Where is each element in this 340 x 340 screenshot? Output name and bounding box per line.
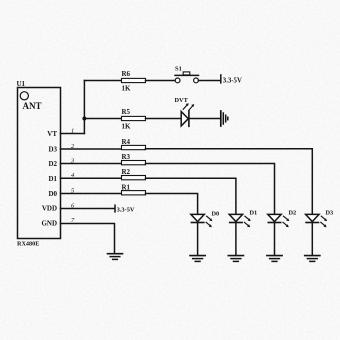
resistor R3	[122, 161, 146, 165]
power flag 3.3-5V (VDD)	[115, 205, 135, 213]
wire: R2 to LED D1 column	[146, 178, 236, 214]
svg-text:VDD: VDD	[42, 205, 57, 213]
wire: R4 to LED D3 column	[146, 149, 313, 215]
wire: R5 to LED DVT anode	[146, 118, 182, 120]
resistor R2	[122, 176, 146, 180]
svg-text:D3: D3	[48, 146, 57, 154]
resistor R5	[122, 116, 146, 120]
svg-text:R4: R4	[122, 138, 131, 146]
resistor R6	[122, 78, 146, 82]
wire: DVT cathode to ground	[190, 118, 220, 120]
IC U1 body (RX480E receiver)	[18, 88, 61, 239]
svg-text:3.3-5V: 3.3-5V	[117, 206, 135, 213]
svg-text:GND: GND	[41, 220, 57, 228]
wire: pin6 VDD to power flag	[61, 208, 115, 210]
wire: pin7 GND right and down to ground	[61, 224, 115, 254]
wire: pin3 D2 to R3	[61, 163, 122, 165]
svg-text:D1: D1	[250, 210, 258, 217]
svg-text:U1: U1	[17, 80, 26, 88]
wire: R1 to LED D0 column	[146, 194, 198, 215]
ground (earth) at U1 GND	[108, 254, 123, 260]
wire: D0 cathode to ground	[197, 223, 199, 255]
wire: riser to R6 left lead	[84, 80, 121, 82]
svg-text:D2: D2	[289, 210, 297, 217]
resistor R1	[122, 191, 146, 195]
svg-text:R6: R6	[122, 70, 131, 78]
wire: D3 cathode to ground	[311, 223, 313, 255]
svg-text:D0: D0	[212, 211, 220, 218]
svg-text:1K: 1K	[122, 123, 132, 131]
LED D3	[306, 214, 328, 227]
ground (earth, rotated) after DVT	[221, 111, 228, 126]
svg-text:D3: D3	[326, 210, 334, 217]
junction dot at riser / R5 tap	[82, 117, 86, 121]
wire: junction to R5 left lead	[84, 118, 121, 120]
wire: vertical riser from VT row up to R6 row	[83, 81, 85, 134]
power flag 3.3-5V (top, after S1)	[221, 75, 242, 85]
ground (earth) below D1	[228, 256, 243, 262]
resistor R4	[122, 145, 146, 149]
svg-text:ANT: ANT	[23, 101, 42, 111]
switch S1 (pushbutton)	[175, 72, 199, 83]
svg-text:R2: R2	[122, 168, 131, 176]
wire: pin4 D1 to R2	[61, 177, 122, 179]
svg-text:D0: D0	[48, 190, 57, 198]
wire: R3 to LED D2 column	[146, 164, 275, 215]
svg-text:VT: VT	[47, 130, 57, 138]
svg-text:D2: D2	[48, 160, 57, 168]
LED D0	[191, 214, 213, 227]
ground (earth) below D3	[305, 256, 320, 262]
svg-text:R1: R1	[122, 184, 131, 192]
wire: R6 to S1	[146, 80, 176, 82]
svg-text:R3: R3	[122, 153, 131, 161]
ground (earth) below D2	[267, 256, 282, 262]
svg-text:3.3-5V: 3.3-5V	[223, 78, 242, 85]
svg-text:S1: S1	[175, 66, 182, 73]
wire: D1 cathode to ground	[235, 223, 237, 255]
wire: S1 to 3.3-5V power flag	[198, 80, 220, 82]
svg-text:R5: R5	[122, 108, 131, 116]
U1 antenna circle	[20, 92, 28, 100]
svg-text:DVT: DVT	[175, 97, 189, 104]
svg-text:RX480E: RX480E	[17, 241, 39, 248]
LED DVT	[181, 103, 194, 126]
wire: pin5 D0 to R1	[61, 193, 122, 195]
wire: pin2 D3 to R4	[61, 148, 122, 150]
svg-text:1K: 1K	[122, 85, 132, 93]
svg-text:D1: D1	[48, 175, 57, 183]
LED D2	[268, 214, 290, 227]
LED D1	[229, 214, 251, 227]
wire: pin1 VT to riser	[61, 133, 85, 135]
wire: D2 cathode to ground	[274, 223, 276, 255]
ground (earth) below D0	[190, 256, 205, 262]
